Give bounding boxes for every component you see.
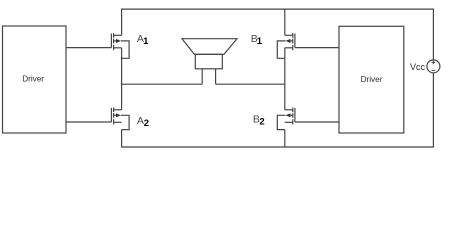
wire: bottom return rail	[122, 73, 434, 147]
loudspeaker LS1	[182, 39, 237, 84]
wire: B1 drain to top rail	[284, 9, 286, 35]
driver block U1 (left)	[3, 26, 67, 133]
wire: left driver to A2 gate	[66, 121, 111, 123]
svg-text:Driver: Driver	[22, 75, 44, 84]
wire: B1 gate to right driver	[295, 47, 339, 49]
transistor B1	[277, 33, 295, 58]
svg-text:2: 2	[259, 117, 264, 128]
driver block U2 (right)	[339, 26, 404, 133]
voltage source Vcc	[427, 60, 440, 73]
wire: top supply rail	[122, 9, 434, 60]
wire: node A to speaker left lead	[122, 83, 203, 85]
svg-text:1: 1	[143, 36, 149, 47]
svg-text:1: 1	[257, 36, 263, 47]
wire: left driver to A1 gate	[66, 47, 111, 49]
svg-text:Driver: Driver	[361, 75, 383, 84]
transistor A1	[111, 33, 129, 58]
svg-text:2: 2	[144, 118, 149, 129]
wire: B2 gate to right driver	[295, 121, 339, 123]
transistor B2	[277, 108, 295, 130]
node B: mid vertical between B1 source and B2 drain	[284, 48, 286, 110]
transistor A2	[111, 108, 129, 130]
wire: B2 source to bottom rail	[284, 130, 286, 147]
node A: mid vertical between A1 source and A2 drain	[121, 48, 123, 110]
svg-text:Vcc: Vcc	[410, 62, 426, 72]
wire: speaker right lead to node B	[216, 83, 285, 85]
